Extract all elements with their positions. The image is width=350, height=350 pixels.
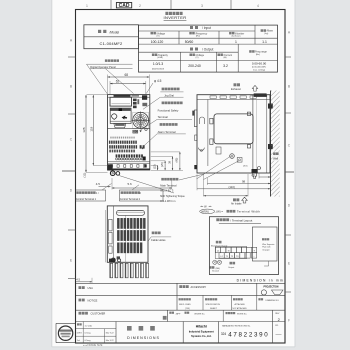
svg-text:(V): (V): [196, 57, 199, 59]
svg-text:4.5: 4.5: [76, 278, 80, 282]
svg-text:(8.8): (8.8): [243, 166, 248, 168]
svg-text:φ 4.5: φ 4.5: [154, 79, 162, 83]
svg-text:Wire Separate: Wire Separate: [262, 243, 274, 246]
svg-text:0.5reg: 0.5reg: [85, 332, 92, 335]
svg-text:Functional Safety: Functional Safety: [158, 108, 179, 112]
svg-text:4: 4: [257, 4, 259, 8]
svg-text:of phases: of phases: [231, 36, 241, 38]
svg-text:/ Output: / Output: [202, 48, 213, 52]
svg-text:68: 68: [125, 73, 129, 77]
svg-text:(kVA): (kVA): [157, 56, 163, 59]
svg-text:1.0/1.3: 1.0/1.3: [153, 62, 163, 66]
svg-text:5.6: 5.6: [128, 182, 133, 186]
svg-text:USA: USA: [88, 286, 94, 290]
svg-text:Ground: Ground: [212, 270, 220, 273]
svg-text:(0.00-400.00Hz: (0.00-400.00Hz: [252, 67, 266, 69]
svg-text:0.00-60.00: 0.00-60.00: [252, 61, 267, 65]
svg-text:0.9-1.38 N·m: 0.9-1.38 N·m: [160, 199, 175, 203]
svg-text:Jog Dial: Jog Dial: [164, 93, 174, 97]
svg-text:(A): (A): [224, 56, 227, 59]
svg-text:(Hz): (Hz): [256, 54, 260, 56]
svg-text:Control Terminal 2: Control Terminal 2: [120, 198, 141, 201]
svg-text:M4F Tightening Torque: M4F Tightening Torque: [160, 195, 185, 198]
svg-text:D I M E N S I O N S: D I M E N S I O N S: [127, 336, 159, 340]
svg-text:1:2 (1b): 1:2 (1b): [85, 326, 92, 328]
svg-text:3rd: 3rd: [77, 340, 80, 342]
svg-text:Mar 9.22: Mar 9.22: [106, 333, 115, 335]
svg-text:NOTICE: NOTICE: [88, 298, 98, 302]
svg-text:SHEET: SHEET: [210, 308, 218, 310]
svg-text:● ● FRAME SIZE: ● ● FRAME SIZE: [83, 344, 103, 347]
svg-text:NARAZAKINO WORKS DWG No.: NARAZAKINO WORKS DWG No.: [222, 324, 251, 327]
svg-text:2: 2: [139, 4, 141, 8]
svg-text:Air Intake: Air Intake: [231, 203, 242, 206]
svg-text:200-240: 200-240: [188, 64, 201, 68]
svg-text:(45): (45): [175, 158, 179, 163]
svg-text:Main Power Supply: Main Power Supply: [211, 244, 227, 247]
svg-text:4.5: 4.5: [96, 182, 101, 186]
svg-text:PROJECTION: PROJECTION: [264, 287, 279, 289]
svg-text:ORDER No.: ORDER No.: [194, 313, 205, 315]
svg-text:INVERTER: INVERTER: [164, 15, 187, 20]
svg-text:324: 324: [221, 332, 227, 336]
svg-text:Systems Co.,Ltd.: Systems Co.,Ltd.: [191, 335, 212, 338]
svg-text:Main Terminal: Main Terminal: [160, 184, 177, 188]
svg-text:DRAWING NO.: DRAWING NO.: [266, 299, 280, 302]
svg-text:Chopper: Chopper: [262, 249, 270, 252]
svg-text:(12): (12): [152, 164, 156, 169]
svg-text:Plate with: Plate with: [262, 246, 270, 249]
svg-text:4 7 8 2 2 3 9 0: 4 7 8 2 2 3 9 0: [228, 331, 268, 338]
svg-text:CAD: CAD: [119, 3, 130, 9]
svg-text:REV: REV: [275, 313, 280, 315]
svg-text:118: 118: [89, 126, 93, 131]
svg-text:(500V/240V): (500V/240V): [152, 68, 165, 70]
svg-text:128: 128: [82, 127, 86, 132]
svg-text:NOT ATTACHED: NOT ATTACHED: [233, 307, 248, 310]
svg-text:/ Input: / Input: [202, 26, 211, 30]
svg-text:(110): (110): [229, 185, 235, 189]
svg-text:1 /: 1 /: [96, 192, 99, 195]
svg-text:(Hz): (Hz): [196, 36, 200, 38]
svg-text:Output: Output: [228, 266, 235, 269]
svg-text:1: 1: [86, 4, 88, 8]
svg-text:98: 98: [242, 180, 246, 184]
svg-text:WORK No.: WORK No.: [237, 313, 247, 315]
svg-text:1.1: 1.1: [262, 40, 267, 44]
svg-text:/ Terminal Layout: / Terminal Layout: [230, 219, 252, 223]
svg-text:(25): (25): [160, 162, 164, 167]
svg-text:0.5reg: 0.5reg: [85, 339, 92, 342]
svg-text:FR.: FR.: [275, 325, 279, 327]
svg-text:Digital Operator Panel: Digital Operator Panel: [90, 65, 116, 69]
svg-text:1: 1: [235, 40, 237, 44]
svg-text:62: 62: [116, 80, 120, 84]
svg-text:, (W) =: , (W) =: [215, 210, 224, 214]
svg-text:100-120: 100-120: [151, 40, 164, 44]
svg-text:(V): (V): [157, 36, 160, 38]
svg-text:Control Terminal 1: Control Terminal 1: [76, 198, 97, 201]
svg-text:Terminal: Terminal: [158, 115, 169, 119]
svg-text:-: -: [254, 254, 255, 258]
svg-text:CUSTOMER: CUSTOMER: [91, 312, 106, 316]
svg-text:max. setting): max. setting): [253, 68, 265, 71]
svg-text:DWG: DWG: [77, 333, 82, 335]
svg-text:(M4): (M4): [216, 268, 221, 270]
svg-text:(8): (8): [252, 173, 255, 177]
svg-text:ACCESSORY: ACCESSORY: [191, 286, 207, 289]
svg-text:Mar 9.22: Mar 9.22: [106, 340, 115, 342]
svg-text:50/60: 50/60: [185, 40, 194, 44]
svg-text:(12): (12): [83, 173, 87, 178]
svg-text:3.2: 3.2: [223, 64, 228, 68]
svg-text:C1-004MF2: C1-004MF2: [100, 41, 123, 46]
svg-text:Wall: Wall: [273, 156, 278, 160]
svg-text:F: F: [288, 319, 290, 323]
svg-text:ATTACHED: ATTACHED: [235, 303, 246, 306]
svg-text:Exhaust: Exhaust: [231, 87, 241, 91]
svg-text:Terminal Width: Terminal Width: [237, 210, 260, 214]
svg-text:SPECIFICATION: SPECIFICATION: [206, 303, 221, 306]
svg-text:M 3 X 8C 3: M 3 X 8C 3: [160, 189, 174, 193]
svg-text:/Model: /Model: [110, 30, 120, 34]
svg-text:DIMENSION in mm: DIMENSION in mm: [237, 279, 284, 283]
svg-text:(Y/N): (Y/N): [185, 308, 190, 310]
svg-text:(W5N): (W5N): [201, 210, 209, 214]
svg-text:ENCLOSED: ENCLOSED: [179, 304, 191, 306]
svg-text:3: 3: [201, 4, 203, 8]
svg-text:/APP: /APP: [176, 312, 181, 315]
svg-text:Alarm Terminal: Alarm Terminal: [158, 130, 176, 134]
svg-text:Industrial Equipment: Industrial Equipment: [189, 330, 214, 333]
svg-text:Cable Holes: Cable Holes: [151, 238, 166, 242]
svg-text:(kg): (kg): [264, 33, 268, 35]
svg-text:Hitachi: Hitachi: [196, 325, 207, 329]
